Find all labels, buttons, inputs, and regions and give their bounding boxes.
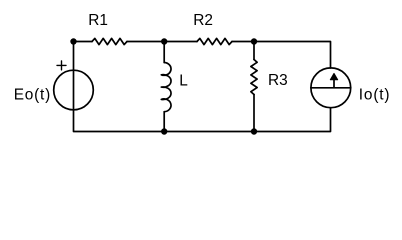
junction node2 top-middle xyxy=(161,38,167,44)
wire node1 to R1 xyxy=(74,41,93,43)
svg-text:Io(t): Io(t) xyxy=(359,87,391,104)
wire bottom node4 to left corner xyxy=(74,110,165,132)
svg-text:R1: R1 xyxy=(88,12,108,29)
wire current source to bottom-right corner xyxy=(254,108,331,132)
wire node2 to R2 xyxy=(164,41,197,43)
wire bottom node5 to node4 xyxy=(164,131,254,133)
wire R1 to node2 xyxy=(127,41,164,43)
current source Io(t) xyxy=(311,68,351,108)
resistor R2 xyxy=(197,38,232,44)
voltage source Eo(t) xyxy=(54,42,94,111)
wire R2 to node3 xyxy=(232,41,254,43)
svg-text:R2: R2 xyxy=(193,12,213,29)
junction node5 bottom-right xyxy=(251,128,257,134)
junction node1 top-left xyxy=(70,38,76,44)
svg-text:Eo(t): Eo(t) xyxy=(14,87,51,104)
resistor R1 xyxy=(92,38,127,44)
svg-text:R3: R3 xyxy=(268,72,288,89)
resistor R3 xyxy=(251,42,257,132)
wire node3 to top-right corner xyxy=(254,42,331,69)
junction node4 bottom-middle xyxy=(161,128,167,134)
junction node3 top-right xyxy=(251,38,257,44)
inductor L xyxy=(161,42,171,132)
svg-text:L: L xyxy=(179,72,188,89)
